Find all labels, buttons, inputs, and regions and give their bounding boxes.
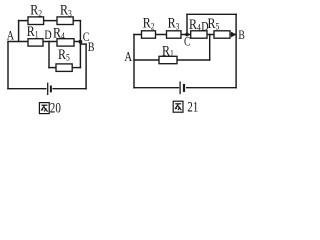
label R4 (figure20) (53, 24, 65, 41)
wire: figure20 left edge (A down to bottom-left corner) (7, 42, 9, 89)
wire: figure21 main wire through R2 R3 C R4 D R5 to B (134, 34, 236, 36)
label figure21 caption digits 21 (187, 98, 198, 115)
wire: figure20 middle wire A to C (8, 41, 80, 43)
wire: figure20 R5 right lead (72, 67, 80, 69)
label figure21 caption glyph tu (173, 101, 183, 112)
resistor R2 (figure20) (28, 17, 44, 25)
wire: figure20 D junction vertical (48, 42, 50, 68)
label R3 (figure20) (60, 1, 72, 18)
svg-text:3: 3 (176, 20, 180, 31)
wire: figure20 R5 left lead (49, 67, 56, 69)
resistor R1 (figure21) (159, 56, 177, 63)
battery short thick plate (figure20) (50, 86, 52, 93)
svg-text:1: 1 (170, 48, 174, 59)
wire: figure20 top branch wire (19, 20, 81, 22)
label D (figure20) (44, 28, 51, 42)
node B arrow (figure21) (231, 32, 236, 38)
svg-text:A: A (7, 28, 15, 42)
wire: figure21 right edge (235, 14, 237, 87)
svg-text:D: D (44, 28, 51, 42)
svg-text:4: 4 (61, 30, 65, 41)
label D (figure21) (201, 19, 208, 33)
wire: figure21 C bypass vertical (186, 14, 188, 34)
resistor R4 (figure20) (57, 39, 74, 46)
wire: figure20 right vertical (top corner through C down to R5 level) (79, 21, 81, 68)
resistor R4 (figure21) (191, 31, 207, 38)
wire: figure20 bottom wire left of battery (8, 88, 46, 90)
resistor R5 (figure21) (214, 31, 230, 38)
svg-text:21: 21 (187, 98, 198, 115)
svg-text:1: 1 (35, 28, 39, 39)
label A (figure20) (7, 28, 15, 42)
svg-text:20: 20 (50, 99, 61, 116)
svg-text:2: 2 (38, 8, 42, 19)
svg-text:B: B (88, 40, 95, 54)
resistor R5 (figure20) (56, 64, 72, 72)
label R1 (figure21) (162, 42, 174, 59)
label figure20 caption digits 20 (50, 99, 61, 116)
wire: figure21 bottom wire right of battery (187, 87, 236, 89)
wire: figure20 left junction vertical (18, 21, 20, 42)
wire: figure20 C to B tick (80, 43, 86, 45)
label R2 (figure20) (30, 1, 42, 18)
label R2 (figure21) (143, 14, 155, 31)
resistor R3 (figure20) (57, 17, 73, 25)
node C junction dot (figure21) (185, 33, 189, 37)
resistor R3 (figure21) (167, 31, 182, 38)
label R5 (figure20) (58, 46, 70, 63)
svg-text:B: B (238, 29, 244, 42)
battery long plate (figure20) (47, 83, 49, 95)
label B (figure21) (238, 29, 244, 42)
wire: figure21 left edge (133, 35, 135, 88)
svg-text:A: A (124, 49, 132, 65)
svg-text:C: C (184, 35, 190, 48)
label C (figure21) (184, 35, 190, 48)
battery short thick plate (figure21) (183, 84, 185, 92)
battery long plate (figure21) (179, 81, 181, 94)
svg-text:3: 3 (68, 8, 72, 19)
svg-text:5: 5 (216, 21, 220, 32)
wire: figure21 D junction vertical (209, 35, 211, 61)
wire: figure20 bottom wire right of battery (53, 88, 86, 90)
node C junction dot (figure20) (79, 40, 83, 44)
wire: figure20 B branch vertical (85, 44, 87, 89)
label figure20 caption glyph tu (39, 103, 49, 114)
label B (figure20) (88, 40, 95, 54)
resistor R1 (figure20) (28, 39, 43, 46)
label C (figure20) (83, 30, 90, 44)
label R5 (figure21) (208, 15, 220, 32)
label R3 (figure21) (168, 14, 180, 31)
svg-text:5: 5 (66, 52, 70, 63)
label R4 (figure21) (189, 16, 201, 33)
wire: figure21 R1 branch wire (134, 59, 210, 61)
wire: figure21 bottom wire left of battery (134, 87, 178, 89)
wire: figure21 bypass top wire (187, 13, 236, 15)
label A (figure21) (124, 49, 132, 65)
svg-text:2: 2 (151, 20, 155, 31)
resistor R2 (figure21) (142, 31, 156, 38)
label R1 (figure20) (27, 23, 39, 40)
